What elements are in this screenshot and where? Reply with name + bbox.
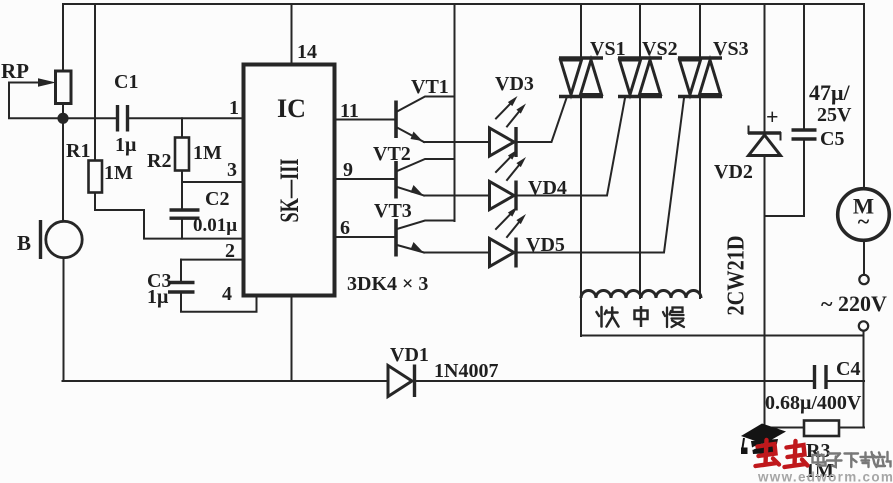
wire VS1 cathode to coil and down (580, 98, 582, 336)
capacitor C1 (114, 71, 138, 156)
svg-text:R1: R1 (66, 140, 90, 162)
watermark red chong chong characters (756, 440, 808, 467)
capacitor C5 (765, 4, 853, 216)
svg-text:C2: C2 (205, 188, 229, 210)
capacitor C3 (147, 260, 257, 312)
capacitor C2 (170, 182, 238, 239)
transistor VT2 (373, 143, 489, 199)
svg-text:VD4: VD4 (528, 177, 567, 199)
LED VD5 (490, 98, 685, 268)
svg-text:2: 2 (225, 240, 235, 262)
svg-text:1μ: 1μ (115, 134, 137, 156)
svg-text:1M: 1M (104, 162, 133, 184)
watermark gray site name glyphs (813, 452, 891, 467)
wire signal line node to pin 1 (67, 117, 116, 119)
svg-text:www.edworm.com: www.edworm.com (757, 470, 893, 483)
wire VD1 to C4 (416, 380, 813, 382)
label man (slow) (663, 308, 684, 328)
svg-text:3: 3 (227, 159, 237, 181)
svg-text:VD5: VD5 (526, 234, 565, 256)
microphone B (17, 123, 82, 382)
svg-text:1: 1 (229, 97, 239, 119)
wire collector rail (454, 4, 456, 221)
svg-text:11: 11 (340, 100, 359, 122)
transistor VT1 (396, 76, 489, 142)
LED VD3 (490, 73, 567, 157)
svg-text:C1: C1 (114, 71, 138, 93)
label zhong (medium) (635, 306, 648, 327)
wire pin 4 line (181, 259, 242, 261)
svg-text:2CW21D: 2CW21D (724, 236, 750, 316)
wire VS2 cathode to coil tap (639, 98, 641, 298)
watermark graduation cap logo (741, 424, 786, 455)
motor M (838, 189, 890, 275)
svg-text:RP: RP (1, 59, 29, 83)
svg-text:VT1: VT1 (411, 76, 449, 98)
svg-text:~ 220V: ~ 220V (821, 291, 887, 316)
LED VD4 (490, 98, 626, 211)
terminal plug top (859, 275, 868, 284)
wire pin 3 line (182, 181, 242, 183)
svg-text:25V: 25V (817, 104, 852, 126)
triac VS3 (678, 4, 749, 97)
wire R1 branch from rail (94, 4, 96, 161)
wire pin 6 (337, 217, 395, 239)
inductor coil (fan speed winding) (581, 291, 701, 299)
svg-text:6: 6 (340, 217, 350, 239)
wire pin 14 (292, 4, 318, 63)
svg-text:1M: 1M (193, 142, 222, 164)
potentiometer RP (1, 4, 71, 118)
svg-text:47μ/: 47μ/ (809, 80, 850, 105)
triac VS2 (618, 4, 678, 97)
wire VS3 cathode to coil end (699, 98, 701, 298)
wire R1 bottom step to pin 2 (95, 193, 242, 239)
svg-text:R2: R2 (147, 150, 171, 172)
svg-text:VT2: VT2 (373, 143, 411, 165)
svg-text:+: + (766, 104, 779, 129)
svg-text:VS2: VS2 (642, 38, 678, 60)
zener diode VD2 2CW21D (714, 4, 781, 428)
svg-text:14: 14 (297, 41, 317, 63)
resistor R1 (66, 140, 133, 193)
wire IC ground stem (291, 298, 293, 382)
svg-text:C5: C5 (820, 128, 844, 150)
svg-text:3DK4 × 3: 3DK4 × 3 (347, 273, 428, 295)
terminal plug bottom (859, 321, 868, 330)
svg-text:9: 9 (343, 159, 353, 181)
svg-text:1μ: 1μ (147, 286, 169, 308)
svg-text:VD3: VD3 (495, 73, 534, 95)
wire C1 to pin 1 (129, 117, 242, 119)
wire top supply rail (63, 3, 864, 5)
wire pin 9 (337, 159, 395, 181)
wire coil return line (581, 335, 864, 337)
transistor VT3 (374, 200, 489, 257)
wire right rail down to motor (863, 4, 865, 189)
svg-text:VD2: VD2 (714, 161, 753, 183)
svg-text:~: ~ (858, 209, 870, 234)
node A junction dot (57, 113, 68, 124)
svg-text:SK—III: SK—III (275, 159, 304, 223)
wire C4 to right rail (828, 380, 865, 382)
wire bottom return line (63, 380, 388, 382)
svg-text:VT3: VT3 (374, 200, 412, 222)
svg-text:0.01μ: 0.01μ (193, 215, 237, 236)
wire pin 11 (337, 100, 395, 122)
svg-text:1N4007: 1N4007 (434, 360, 498, 382)
svg-text:IC: IC (277, 94, 306, 123)
diode VD1 1N4007 (388, 344, 498, 397)
svg-text:VD1: VD1 (390, 344, 429, 366)
svg-text:B: B (17, 231, 31, 255)
label kuai (fast) (597, 307, 619, 327)
svg-text:C4: C4 (836, 358, 860, 380)
resistor R3 (765, 421, 865, 483)
svg-text:0.68μ/400V: 0.68μ/400V (765, 392, 862, 414)
capacitor C4 (765, 358, 862, 414)
svg-text:VS3: VS3 (713, 38, 749, 60)
op-amp IC U1 SK-III box (244, 65, 335, 296)
svg-text:4: 4 (222, 283, 232, 305)
resistor R2 (147, 118, 222, 182)
wire terminal down (863, 331, 865, 428)
triac VS1 (559, 4, 626, 97)
